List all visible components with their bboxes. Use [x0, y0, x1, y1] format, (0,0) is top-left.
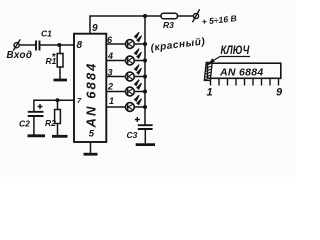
- svg-text:R3: R3: [163, 20, 174, 30]
- svg-text:AN 6884: AN 6884: [84, 61, 99, 128]
- svg-text:3: 3: [108, 67, 113, 77]
- svg-text:C1: C1: [41, 29, 52, 39]
- svg-text:Вход: Вход: [7, 50, 33, 61]
- svg-text:9: 9: [276, 87, 283, 99]
- svg-text:4: 4: [107, 51, 113, 61]
- svg-text:R2: R2: [45, 118, 56, 128]
- svg-text:C2: C2: [19, 119, 30, 129]
- svg-text:8: 8: [77, 40, 83, 51]
- svg-text:AN 6884: AN 6884: [219, 67, 264, 79]
- svg-text:C3: C3: [127, 130, 138, 140]
- svg-text:9: 9: [92, 23, 98, 34]
- svg-text:2: 2: [107, 82, 113, 92]
- svg-text:1: 1: [109, 96, 114, 106]
- svg-text:5: 5: [89, 129, 95, 140]
- svg-text:КЛЮЧ: КЛЮЧ: [221, 44, 250, 57]
- svg-text:1: 1: [207, 87, 213, 99]
